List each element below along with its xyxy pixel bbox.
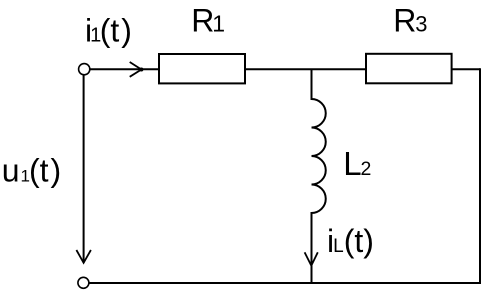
svg-text:u1(t): u1(t) — [2, 153, 61, 189]
svg-text:iL(t): iL(t) — [327, 223, 374, 259]
svg-text:i1(t): i1(t) — [85, 13, 132, 49]
